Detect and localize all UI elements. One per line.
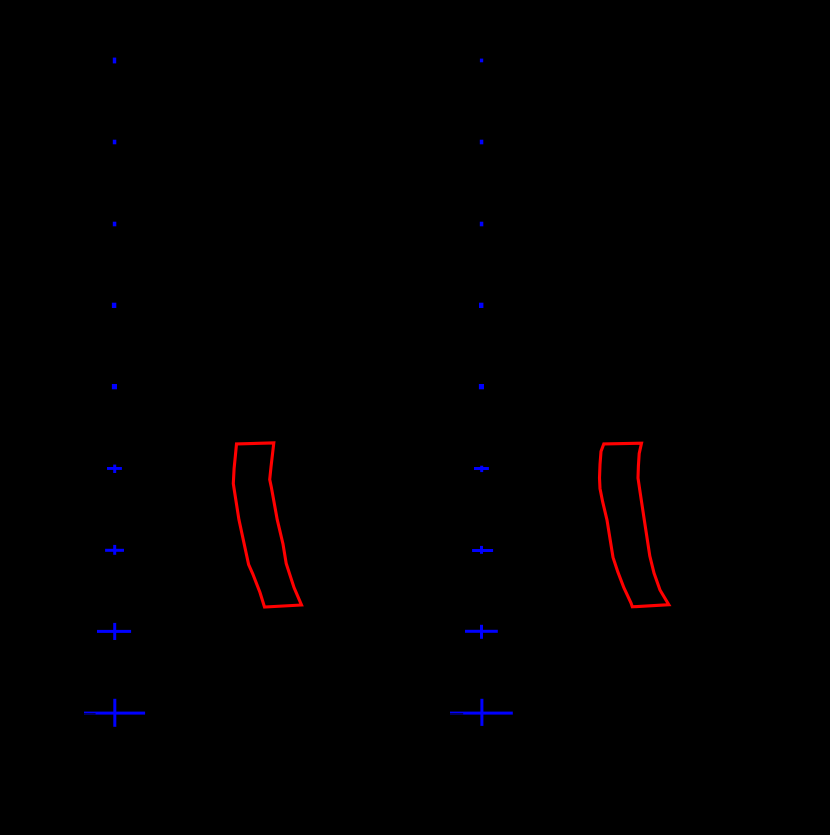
error bars L9 [84, 712, 145, 715]
error bars R8 [465, 630, 498, 633]
error bars L8 [97, 630, 131, 633]
left panel data points (blue) [84, 58, 145, 727]
notch in L9 bar [84, 712, 96, 715]
point R1 [480, 59, 483, 63]
error bars R7 [472, 549, 493, 552]
error bars R9 [450, 712, 513, 715]
point L2 [113, 140, 117, 145]
left red region outline [233, 443, 301, 607]
point R2 [480, 140, 484, 145]
point L5 [112, 384, 117, 389]
point R4 [479, 303, 483, 308]
point L3 [113, 222, 117, 227]
right panel data points (blue) [450, 59, 513, 726]
point L4 [112, 303, 116, 308]
error bars R6 [474, 467, 489, 470]
point R3 [480, 222, 484, 227]
error bars L7 [105, 549, 124, 552]
point R5 [479, 384, 484, 389]
notch in R9 bar [450, 712, 463, 715]
point L1 [113, 58, 116, 64]
error bars L6 [107, 467, 122, 470]
right red region outline [600, 443, 669, 607]
